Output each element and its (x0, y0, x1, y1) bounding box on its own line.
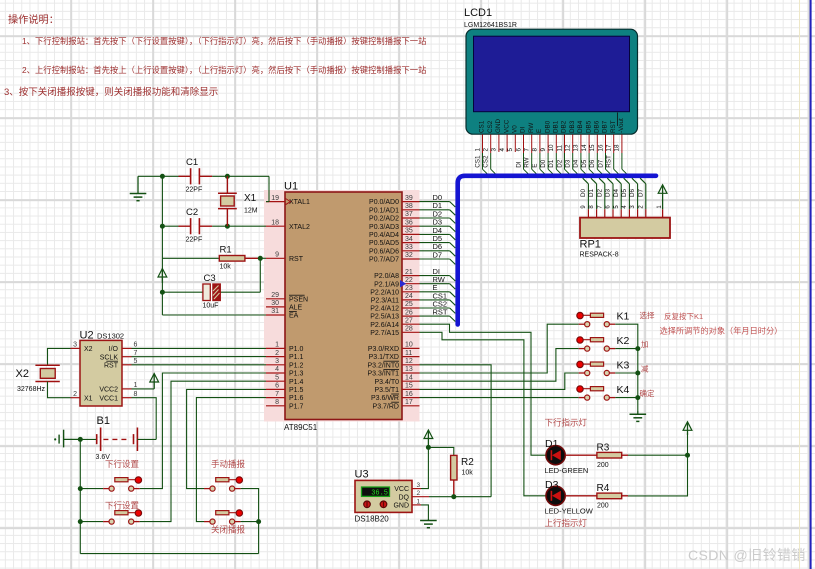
svg-text:X1: X1 (84, 395, 93, 402)
svg-text:D6: D6 (589, 159, 596, 168)
label 减 (641, 364, 649, 374)
wire: R3 to power rail (622, 454, 688, 456)
svg-text:P1.6: P1.6 (289, 395, 304, 402)
svg-text:D1: D1 (588, 188, 595, 197)
svg-text:D2: D2 (556, 159, 563, 168)
wire: C2 row to XTAL2 (162, 225, 266, 227)
svg-text:5: 5 (134, 358, 138, 365)
resistor R4 (597, 483, 622, 510)
svg-text:K3: K3 (617, 359, 630, 371)
svg-text:VCC: VCC (503, 119, 510, 133)
svg-text:RP1: RP1 (580, 239, 601, 251)
svg-text:8: 8 (275, 399, 279, 406)
svg-text:CS1: CS1 (474, 155, 481, 168)
svg-text:E: E (536, 129, 543, 133)
svg-text:RESPACK-8: RESPACK-8 (580, 252, 619, 259)
capacitor C1 (179, 157, 213, 194)
button 手动播报 (204, 459, 246, 491)
wires: LCD pins to bus (483, 153, 628, 174)
node: R2-DQ junction (451, 494, 456, 499)
svg-text:DB6: DB6 (594, 120, 601, 133)
U3 pin names (393, 486, 409, 509)
svg-text:GND: GND (393, 503, 409, 510)
svg-text:23: 23 (405, 285, 413, 292)
svg-text:10k: 10k (220, 264, 232, 271)
svg-text:D1: D1 (548, 159, 555, 168)
label 确定 (640, 388, 655, 398)
svg-text:29: 29 (271, 292, 279, 299)
svg-text:D6: D6 (629, 188, 636, 197)
svg-text:P0.3/AD3: P0.3/AD3 (369, 224, 399, 231)
LCD LCD1 body (466, 29, 638, 134)
svg-text:25: 25 (405, 301, 413, 308)
svg-text:8: 8 (532, 148, 539, 152)
svg-text:7: 7 (524, 148, 531, 152)
svg-text:D0: D0 (580, 188, 587, 197)
svg-text:P1.5: P1.5 (289, 387, 304, 394)
svg-text:下行设置: 下行设置 (105, 459, 140, 469)
wire: EA row (162, 314, 266, 316)
svg-text:下行指示灯: 下行指示灯 (545, 418, 588, 428)
svg-text:1: 1 (134, 382, 138, 389)
svg-text:CS2: CS2 (487, 120, 494, 133)
svg-text:D7: D7 (637, 188, 644, 197)
wire: U3 GND down (421, 505, 428, 519)
svg-text:7: 7 (134, 350, 138, 357)
wire: LED power rail (628, 433, 688, 496)
svg-text:DB5: DB5 (585, 120, 592, 133)
svg-text:1: 1 (417, 498, 421, 505)
button K2 (577, 335, 630, 351)
svg-text:P0.7/AD7: P0.7/AD7 (369, 257, 399, 264)
ground (U3) (420, 519, 437, 528)
svg-text:33: 33 (405, 244, 413, 251)
svg-text:3: 3 (630, 205, 636, 209)
svg-text:P0.5/AD5: P0.5/AD5 (369, 240, 399, 247)
power arrow on reset rail (158, 269, 167, 284)
svg-text:K1: K1 (617, 311, 630, 323)
svg-text:E: E (532, 164, 539, 168)
svg-text:21: 21 (405, 269, 413, 276)
svg-text:选择所调节的对象（年月日时分）: 选择所调节的对象（年月日时分） (660, 326, 783, 336)
svg-text:P2.2/A10: P2.2/A10 (370, 289, 399, 296)
svg-text:200: 200 (597, 503, 609, 510)
svg-text:D3: D3 (565, 159, 572, 168)
svg-text:RW: RW (528, 123, 535, 133)
wire: U1 P3.4 to K2 (420, 349, 579, 382)
svg-text:R3: R3 (597, 443, 610, 454)
wire: U2 SCLK to U1 P1.1 (132, 356, 267, 358)
svg-text:2: 2 (73, 391, 77, 398)
U1 right pin names (367, 199, 399, 410)
U1 reference label (284, 181, 298, 193)
svg-text:DB7: DB7 (602, 120, 609, 133)
svg-text:P3.1/TXD: P3.1/TXD (369, 354, 399, 361)
svg-text:3: 3 (417, 482, 421, 489)
svg-text:DB0: DB0 (544, 120, 551, 133)
wire: U3 VCC up to R2 rail (421, 447, 428, 488)
svg-text:P0.6/AD6: P0.6/AD6 (369, 248, 399, 255)
svg-text:C3: C3 (204, 273, 216, 284)
wire: DQ to U1 P3.2 (420, 365, 492, 497)
svg-text:4: 4 (499, 148, 506, 152)
resistor R1 (219, 245, 260, 271)
svg-text:D5: D5 (621, 188, 628, 197)
U1 right pin name overlines (383, 361, 399, 402)
U3 pin stubs and numbers (412, 482, 429, 505)
wire: K buttons common rail (615, 324, 638, 411)
svg-text:减: 减 (641, 364, 649, 374)
capacitor C3 (electrolytic) (203, 273, 221, 310)
svg-text:200: 200 (597, 462, 609, 469)
svg-text:下行设置: 下行设置 (105, 501, 140, 511)
svg-text:DS18B20: DS18B20 (355, 515, 390, 524)
svg-text:39: 39 (405, 195, 413, 202)
svg-text:19: 19 (271, 195, 279, 202)
svg-text:GND: GND (495, 119, 502, 133)
node: left rail junction 1 (78, 486, 83, 491)
svg-text:K2: K2 (617, 335, 630, 347)
svg-text:DQ: DQ (399, 494, 410, 501)
node: K rail junctions (635, 346, 640, 400)
LCD pin stubs (pins 1-18) (483, 135, 622, 154)
svg-text:4: 4 (622, 205, 628, 209)
svg-text:11: 11 (405, 350, 412, 357)
svg-text:24: 24 (405, 293, 413, 300)
svg-text:P3.7/RD: P3.7/RD (373, 403, 399, 410)
svg-text:D7: D7 (433, 250, 443, 259)
svg-text:RST: RST (433, 308, 448, 317)
wire: button 3 right to rail (241, 489, 259, 554)
svg-text:R2: R2 (461, 457, 474, 468)
svg-text:37: 37 (405, 211, 413, 218)
button 下行设置 (lower) (103, 501, 141, 525)
LED D1 (545, 438, 589, 475)
svg-text:6: 6 (275, 383, 279, 390)
wires: bus to RP1 pins (583, 178, 646, 209)
svg-text:3: 3 (275, 358, 279, 365)
crystal X2 (16, 348, 71, 397)
svg-text:13: 13 (405, 366, 413, 373)
crystal X1 (218, 176, 258, 226)
svg-text:9: 9 (540, 148, 547, 152)
svg-text:3: 3 (73, 342, 77, 349)
node: C1-XTAL1 junction (225, 174, 230, 179)
svg-text:P0.2/AD2: P0.2/AD2 (369, 216, 399, 223)
svg-text:14: 14 (581, 144, 588, 152)
power arrow at LED rail (683, 422, 692, 435)
battery B1 (96, 415, 138, 461)
svg-text:RST: RST (610, 120, 617, 133)
resistor R3 (597, 443, 622, 470)
svg-text:手动播报: 手动播报 (211, 459, 246, 469)
svg-text:10uF: 10uF (203, 303, 219, 310)
svg-text:11: 11 (556, 144, 563, 151)
svg-text:选择: 选择 (640, 310, 655, 320)
svg-text:16: 16 (405, 391, 413, 398)
svg-text:1: 1 (474, 148, 481, 152)
svg-text:B1: B1 (97, 415, 110, 427)
svg-text:7: 7 (597, 205, 603, 209)
node: C3 left junction (160, 290, 165, 295)
svg-text:P3.0/RXD: P3.0/RXD (368, 346, 399, 353)
U1 left pin numbers (271, 195, 279, 406)
svg-text:22PF: 22PF (186, 237, 203, 244)
wire: U1 P3.6 to K4 (420, 397, 579, 399)
svg-text:D5: D5 (581, 159, 588, 168)
svg-text:D0: D0 (540, 159, 547, 168)
LCD pin numbers and net labels (474, 144, 620, 168)
watermark (688, 545, 806, 565)
ground (near C1) (130, 176, 147, 200)
svg-text:LGM12641BS1R: LGM12641BS1R (464, 22, 517, 29)
wire: button 4 to U1 P1.6 (196, 398, 266, 522)
U1 left pin stubs (266, 202, 285, 406)
U1 XTAL1 clock marker (286, 199, 291, 205)
svg-text:P2.5/A13: P2.5/A13 (370, 314, 399, 321)
wire: U2 I/O to U1 P1.0 (132, 347, 267, 349)
svg-text:P1.0: P1.0 (289, 346, 304, 353)
battery terminal symbol (54, 430, 80, 448)
svg-text:加: 加 (641, 339, 649, 349)
svg-text:17: 17 (606, 144, 613, 152)
label 上行指示灯 (545, 518, 588, 528)
svg-text:P1.7: P1.7 (289, 403, 304, 410)
svg-text:DI: DI (515, 161, 522, 168)
svg-text:3: 3 (491, 148, 498, 152)
svg-text:X1: X1 (244, 193, 257, 204)
U3 adjust knobs (364, 501, 387, 508)
svg-text:D7: D7 (597, 159, 604, 168)
svg-text:P0.4/AD4: P0.4/AD4 (369, 232, 399, 239)
wire: button 3 to U1 P1.5 (187, 389, 266, 488)
svg-text:P1.1: P1.1 (289, 354, 304, 361)
wire: battery rail down-left (79, 439, 81, 553)
page margin line (799, 0, 800, 569)
svg-text:AT89C51: AT89C51 (284, 423, 318, 432)
svg-text:P3.5/T1: P3.5/T1 (374, 387, 399, 394)
wire: U2 RST to U1 P1.2 (132, 364, 267, 366)
button K1 (577, 311, 630, 327)
ground (K rail) (630, 411, 647, 421)
wire: junction to R2 (428, 447, 453, 455)
svg-text:P2.7/A15: P2.7/A15 (370, 330, 399, 337)
svg-text:D4: D4 (573, 159, 580, 168)
U3 display (362, 487, 390, 498)
svg-text:13: 13 (573, 144, 580, 152)
svg-text:P1.2: P1.2 (289, 362, 304, 369)
wire: button 4 right to rail (241, 521, 259, 523)
svg-text:10k: 10k (462, 470, 474, 477)
svg-text:P2.3/A11: P2.3/A11 (371, 298, 399, 305)
svg-text:6: 6 (606, 205, 612, 209)
wire: bottom rail (80, 553, 258, 555)
svg-text:2: 2 (483, 148, 490, 152)
RP1 labels (580, 239, 619, 259)
wire: U2 VCC1 to battery (132, 398, 157, 440)
svg-text:26: 26 (405, 309, 413, 316)
U3 part label (355, 515, 390, 524)
svg-text:38: 38 (405, 203, 413, 210)
capacitor C2 (179, 207, 213, 244)
svg-text:10: 10 (548, 144, 555, 152)
svg-text:DB2: DB2 (561, 120, 568, 133)
svg-text:1: 1 (275, 342, 279, 349)
svg-text:P3.6/WR: P3.6/WR (371, 395, 399, 402)
svg-text:VCC: VCC (394, 486, 409, 493)
rtc U2 body (80, 340, 122, 406)
wire: button 2 to U1 P1.4 (140, 381, 266, 521)
U1 right pin stubs (402, 202, 420, 406)
svg-text:35: 35 (405, 228, 413, 235)
svg-text:RST: RST (289, 256, 304, 263)
svg-text:P1.3: P1.3 (289, 371, 304, 378)
svg-text:XTAL1: XTAL1 (289, 199, 310, 206)
LCD pin name labels (479, 113, 625, 134)
RP1 net labels D0-D7 (580, 188, 644, 197)
svg-text:4: 4 (275, 366, 279, 373)
svg-text:DB1: DB1 (553, 120, 560, 133)
svg-text:VCC1: VCC1 (99, 395, 118, 402)
svg-text:15: 15 (589, 144, 596, 152)
wire: R4 to rail (622, 495, 628, 497)
RP1 pin numbers (581, 205, 663, 209)
svg-text:22: 22 (405, 277, 413, 284)
svg-text:D2: D2 (596, 188, 603, 197)
svg-text:RST: RST (104, 362, 119, 369)
svg-text:D4: D4 (613, 188, 620, 197)
button 关闭播报 (204, 510, 246, 535)
wire: D1 to R3 (565, 454, 597, 456)
svg-text:上行指示灯: 上行指示灯 (545, 518, 588, 528)
wire: U2 VCC2 to power (132, 388, 155, 390)
blue cursor marker at pin 22 (400, 280, 406, 287)
svg-text:12M: 12M (244, 208, 258, 215)
svg-text:P2.4/A12: P2.4/A12 (370, 306, 399, 313)
svg-text:9: 9 (581, 205, 587, 209)
wire: RST junction down to C3 (220, 258, 260, 292)
svg-text:36: 36 (405, 219, 413, 226)
svg-text:DB3: DB3 (569, 120, 576, 133)
wire: battery to VCC1 rail (137, 438, 156, 440)
svg-text:反复按下K1: 反复按下K1 (664, 311, 703, 321)
wire: U1 pin 28 to LED D3 (420, 332, 547, 496)
temperature sensor U3 body (355, 480, 412, 512)
svg-text:I/O: I/O (109, 346, 119, 353)
power arrow at R2 rail (424, 430, 433, 447)
wire: U1 P3.3 to K1 (420, 324, 579, 373)
button K4 (577, 384, 630, 400)
label 选择所调节的对象 (660, 326, 783, 336)
svg-text:8: 8 (134, 391, 138, 398)
node: R3 rail junction (685, 453, 690, 458)
svg-text:5: 5 (614, 205, 620, 209)
svg-text:CS2: CS2 (483, 155, 490, 168)
svg-text:32: 32 (405, 252, 413, 259)
svg-text:关闭播报: 关闭播报 (211, 525, 246, 535)
microcontroller U1 highlight (264, 190, 420, 422)
svg-text:2: 2 (417, 490, 421, 497)
button 下行设置 (upper) (103, 459, 141, 491)
wire: D3 to R4 (565, 495, 597, 497)
svg-text:DI: DI (520, 126, 527, 133)
svg-text:32768Hz: 32768Hz (17, 386, 46, 393)
wire: junction to C3 (162, 291, 203, 293)
svg-text:12: 12 (405, 358, 413, 365)
svg-text:28: 28 (405, 326, 413, 333)
svg-text:P3.2/INT0: P3.2/INT0 (367, 362, 399, 369)
svg-text:EA: EA (289, 313, 299, 320)
wire: RST row (162, 257, 266, 259)
wire: left vertical (C1-C2-C3 rail) (161, 176, 163, 315)
power arrow at RP1 pin 1 (658, 185, 667, 210)
wire: ground to C1 to XTAL1 (138, 176, 269, 201)
node: left rail junction 2 (78, 519, 83, 524)
LED D3 (545, 479, 594, 516)
svg-text:-Vout: -Vout (618, 118, 625, 133)
svg-text:31: 31 (271, 308, 279, 315)
svg-text:P2.1/A9: P2.1/A9 (374, 281, 399, 288)
svg-text:15: 15 (405, 383, 413, 390)
svg-text:P3.4/T0: P3.4/T0 (374, 379, 399, 386)
svg-text:U1: U1 (284, 181, 298, 193)
wire: U1 pin 27 to LED D1 (420, 324, 547, 455)
svg-text:P0.1/AD1: P0.1/AD1 (369, 207, 399, 214)
svg-text:D3: D3 (545, 479, 559, 491)
U2 pin names (84, 346, 119, 402)
svg-text:PSEN: PSEN (289, 296, 308, 303)
svg-text:6: 6 (134, 342, 138, 349)
svg-text:DB4: DB4 (577, 120, 584, 133)
rtc U2 labels (80, 330, 125, 342)
U1 right pin numbers (405, 195, 413, 406)
U2 pin stubs and numbers (71, 342, 138, 398)
label 选择 (640, 310, 655, 320)
svg-text:10: 10 (405, 342, 413, 349)
instruction text block (8, 11, 59, 26)
svg-text:2: 2 (275, 350, 279, 357)
svg-text:P2.0/A8: P2.0/A8 (374, 273, 399, 280)
svg-text:P3.3/INT1: P3.3/INT1 (367, 371, 399, 378)
svg-text:5: 5 (275, 374, 279, 381)
U1 left pin names (289, 199, 310, 410)
wire: button 1 to U1 P1.3 (140, 373, 266, 489)
svg-text:17: 17 (405, 399, 413, 406)
wire: rail to button 1 (80, 488, 103, 490)
svg-text:ALE: ALE (289, 305, 303, 312)
svg-text:30: 30 (271, 300, 279, 307)
resistor R2 (451, 455, 475, 496)
svg-text:34: 34 (405, 236, 413, 243)
svg-text:LCD1: LCD1 (464, 7, 492, 19)
svg-text:RST: RST (606, 155, 613, 168)
node: C1-left junction (160, 174, 165, 179)
node: C2 junctions (160, 224, 230, 229)
bus (thick blue) (458, 176, 656, 325)
svg-text:2: 2 (638, 205, 644, 209)
resistor pack RP1 (580, 218, 670, 238)
svg-text:R4: R4 (597, 483, 610, 494)
temperature sensor U3 label (355, 469, 369, 481)
svg-text:18: 18 (271, 219, 279, 226)
svg-text:P0.0/AD0: P0.0/AD0 (369, 199, 399, 206)
node: R2 top junction (426, 445, 431, 450)
svg-text:8: 8 (589, 205, 595, 209)
svg-text:SCLK: SCLK (100, 354, 119, 361)
label 下行指示灯 (545, 418, 588, 428)
svg-text:6: 6 (515, 148, 522, 152)
svg-text:X2: X2 (84, 346, 93, 353)
